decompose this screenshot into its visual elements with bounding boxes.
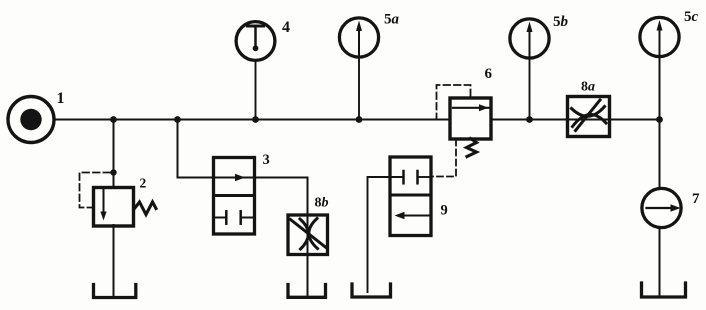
wire gauge 5c stem down to flow meter 7 <box>659 56 661 189</box>
svg-text:4: 4 <box>282 19 290 36</box>
svg-text:9: 9 <box>441 203 448 219</box>
tank under valve 2 <box>94 285 136 298</box>
gauge 5a (pressure gauge, up arrow) <box>339 18 378 57</box>
gauge 5b (pressure gauge, up arrow) <box>510 19 549 58</box>
wire branch to valve 3, through to throttle 8b and tank <box>178 120 308 296</box>
svg-text:1: 1 <box>57 90 65 107</box>
throttle 8a arcs and adjusting diagonal <box>572 100 607 131</box>
throttle valve 8a body <box>568 97 610 137</box>
wire valve 9 left port to tank <box>368 177 404 292</box>
wire main supply line (pump to valve 6) <box>53 119 450 121</box>
pressure valve 6 body <box>450 98 491 139</box>
wire relief valve 2 to tank <box>113 225 115 296</box>
wire dashed pilot line of valve 6 (upstream sensing) <box>437 85 471 118</box>
node junction at gauge 5c / meter 7 <box>656 116 663 123</box>
node junction pilot on branch of valve 2 <box>110 169 116 175</box>
tank under flow meter 7 <box>642 283 686 297</box>
flow meter 7 (circle with right arrow) <box>642 188 681 227</box>
blocked ports in valve 9 top cell <box>404 171 418 183</box>
svg-text:5b: 5b <box>553 14 569 30</box>
blocked ports in valve 3 bottom cell <box>214 211 255 223</box>
svg-text:6: 6 <box>485 66 493 82</box>
relief valve 2 body <box>94 188 134 227</box>
directional valve 3 body (2 position) <box>214 158 255 235</box>
arrow in valve 3 top cell <box>235 174 245 181</box>
throttle 8b arcs and adjusting diagonal <box>291 219 327 250</box>
svg-text:7: 7 <box>692 191 700 207</box>
wire dashed pilot line of relief valve 2 <box>80 173 112 208</box>
gauge 4 (thermometer) <box>236 22 275 61</box>
wire gauge 5a stem <box>358 57 360 120</box>
svg-text:8b: 8b <box>315 196 329 211</box>
svg-text:2: 2 <box>140 176 147 191</box>
node junction at gauge 4 <box>252 116 259 123</box>
wire gauge 4 stem <box>255 60 257 120</box>
spring of relief valve 2 <box>135 202 157 215</box>
tank under throttle 8b <box>288 285 326 298</box>
wire valve 9 right port (solid inside box) <box>418 176 432 178</box>
wire flow meter 7 to tank <box>659 228 661 295</box>
pump 1 (pressure source circle with filled center) <box>8 97 54 143</box>
node junction at valve 3 branch <box>174 116 181 123</box>
node junction at relief valve branch <box>110 116 117 123</box>
directional valve 9 body (2 position) <box>390 157 431 236</box>
node junction at gauge 5b <box>526 116 533 123</box>
spring of valve 6 <box>467 139 477 157</box>
wire branch down to relief valve 2 <box>113 120 115 189</box>
wire dashed drain line valve 6 to valve 9 <box>432 140 457 177</box>
node junction at gauge 5a <box>356 116 363 123</box>
wire gauge 5b stem <box>529 58 531 120</box>
svg-text:3: 3 <box>263 152 270 168</box>
arrow in valve 9 bottom cell <box>395 212 432 219</box>
wire main line (valve 6 to node at 5c) <box>491 119 660 121</box>
svg-text:5c: 5c <box>684 9 699 25</box>
svg-text:5a: 5a <box>384 12 400 28</box>
tank under valve 9 <box>352 284 391 297</box>
gauge 5c (pressure gauge, up arrow) <box>640 17 679 56</box>
svg-text:8a: 8a <box>581 80 595 95</box>
throttle valve 8b body <box>288 215 328 255</box>
